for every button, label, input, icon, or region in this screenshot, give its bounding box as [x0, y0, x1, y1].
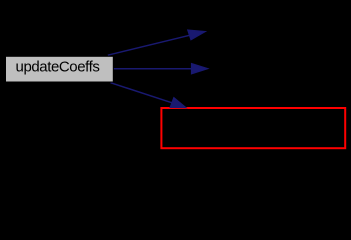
wire edge3 arrowhead	[170, 98, 186, 108]
node truncated (red border)	[161, 108, 345, 148]
node updateCoeffs	[6, 56, 114, 82]
wire edge1 arrowhead	[188, 30, 206, 40]
wire edge1 shaft (updateCoeffs to top node)	[108, 35, 190, 55]
wire edge2 shaft (updateCoeffs to middle node)	[113, 68, 193, 70]
wire edge2 arrowhead	[191, 63, 208, 74]
svg-text:updateCoeffs: updateCoeffs	[16, 59, 100, 76]
wire edge3 shaft (updateCoeffs to red node)	[111, 83, 173, 103]
